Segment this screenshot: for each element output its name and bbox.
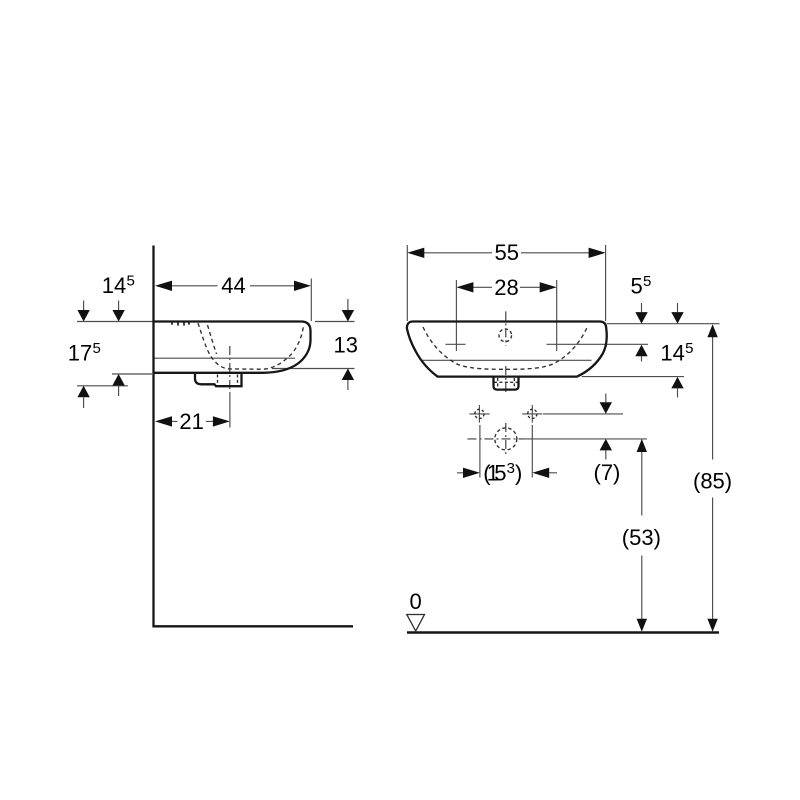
svg-text:5: 5 [127, 273, 135, 290]
svg-text:14: 14 [660, 341, 684, 366]
svg-text:5: 5 [631, 274, 643, 299]
svg-text:5: 5 [643, 273, 651, 290]
svg-text:21: 21 [179, 409, 203, 434]
svg-text:14: 14 [102, 273, 126, 298]
svg-text:5: 5 [494, 461, 506, 486]
svg-text:): ) [515, 461, 522, 486]
svg-text:(53): (53) [622, 525, 661, 550]
svg-text:28: 28 [494, 275, 518, 300]
svg-text:3: 3 [507, 460, 515, 477]
svg-text:(7): (7) [594, 460, 621, 485]
svg-text:(85): (85) [693, 468, 732, 493]
svg-text:44: 44 [221, 273, 245, 298]
svg-text:13: 13 [334, 333, 358, 358]
svg-text:5: 5 [93, 340, 101, 357]
svg-text:0: 0 [410, 589, 422, 614]
svg-text:5: 5 [685, 340, 693, 357]
svg-text:55: 55 [495, 240, 519, 265]
svg-text:17: 17 [68, 340, 92, 365]
